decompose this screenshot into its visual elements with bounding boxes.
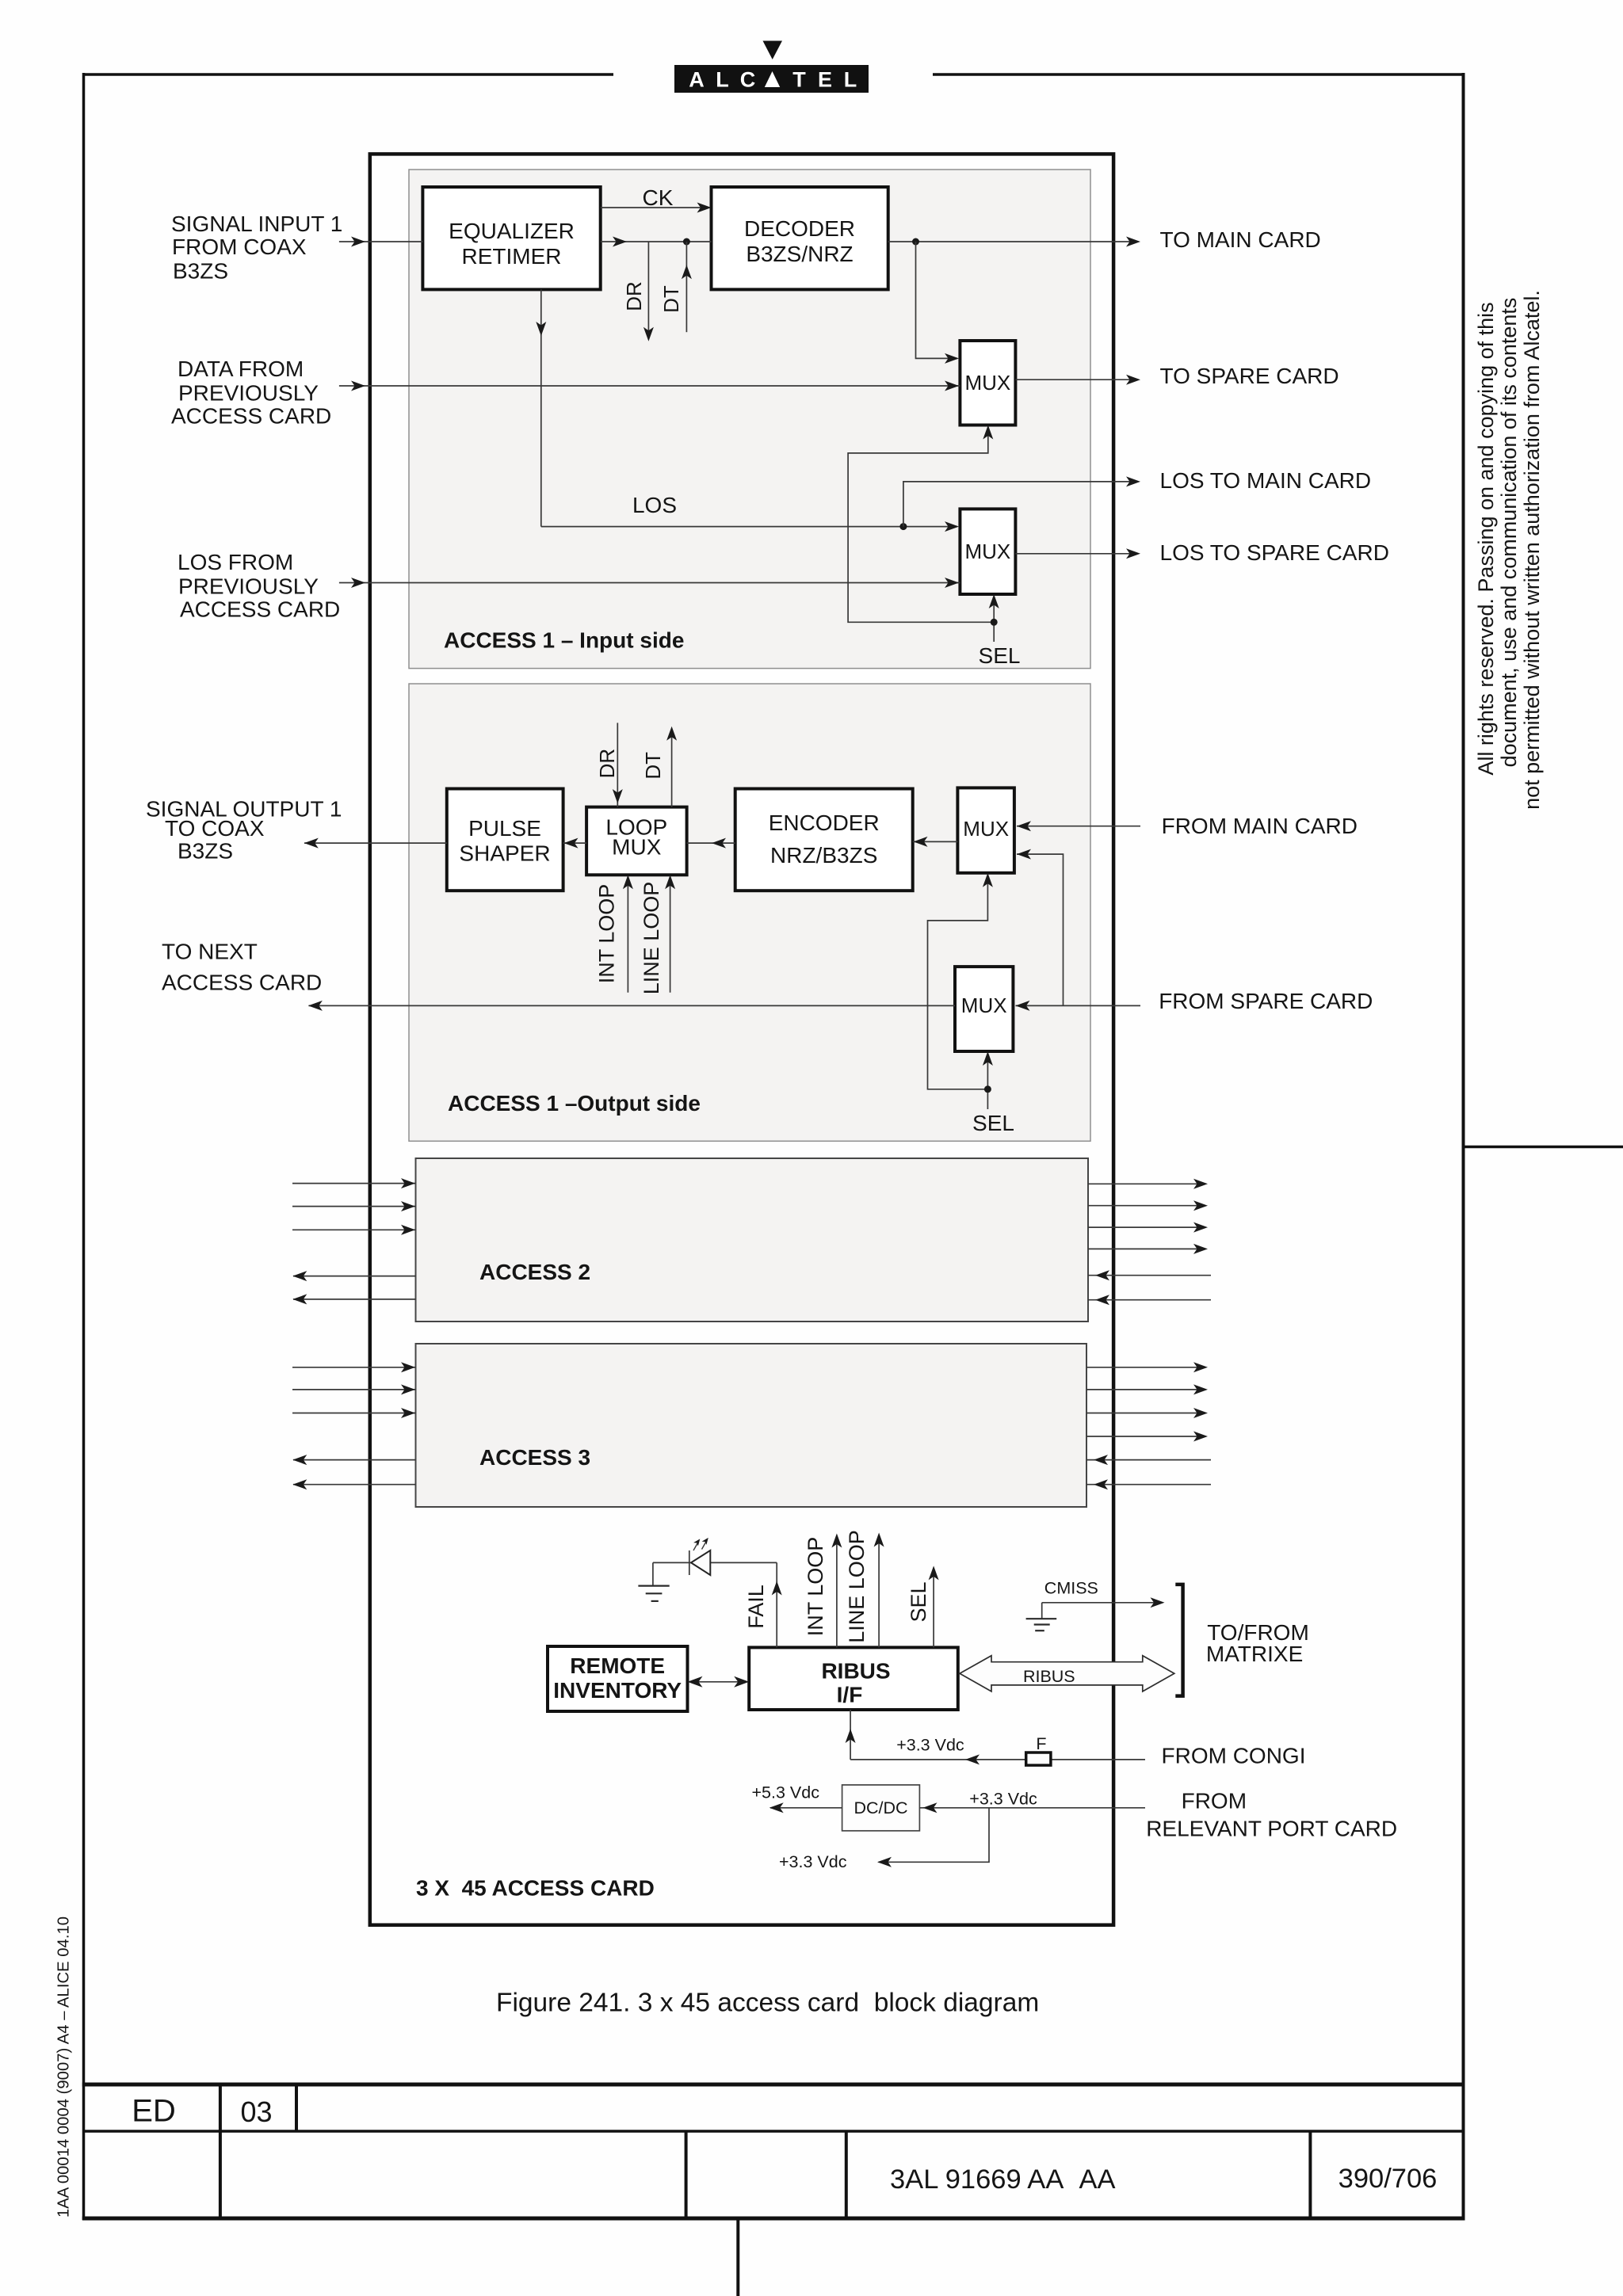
wires ACCESS 2 right outputs: [1088, 1179, 1208, 1254]
svg-text:+3.3 Vdc: +3.3 Vdc: [779, 1852, 847, 1871]
svg-text:F: F: [1036, 1734, 1046, 1753]
wire CMISS: [1042, 1579, 1165, 1608]
svg-text:DR: DR: [595, 749, 619, 779]
svg-text:LOS FROM: LOS FROM: [178, 550, 293, 574]
block RIBUS I/F: [749, 1647, 958, 1710]
label SIGNAL OUTPUT 1 TO COAX B3ZS: [146, 797, 342, 864]
node SEL output junction: [984, 1085, 991, 1093]
svg-text:B3ZS: B3ZS: [178, 839, 233, 864]
mux U3 (from main card): [957, 788, 1014, 872]
svg-text:FROM SPARE CARD: FROM SPARE CARD: [1159, 989, 1373, 1013]
svg-text:MUX: MUX: [965, 540, 1011, 563]
svg-text:B3ZS: B3ZS: [173, 259, 228, 284]
LED D1: [653, 1538, 777, 1575]
wire signal input 1: [339, 237, 423, 247]
wire SEL output side: [928, 873, 993, 1109]
main card outer box: [370, 154, 1113, 1924]
svg-text:+5.3 Vdc: +5.3 Vdc: [752, 1783, 820, 1802]
wires ACCESS 3 right outputs: [1086, 1362, 1208, 1441]
wire LINE LOOP into loop mux: [640, 875, 675, 994]
svg-text:MUX: MUX: [961, 994, 1007, 1017]
wire SEL from ribus: [907, 1566, 939, 1647]
svg-text:B3ZS/NRZ: B3ZS/NRZ: [746, 242, 853, 266]
wire LOS from equalizer: [536, 289, 959, 532]
wire LOS from previously access card: [339, 578, 960, 588]
wire signal output 1: [304, 838, 447, 849]
svg-text:ACCESS CARD: ACCESS CARD: [171, 404, 331, 429]
wire LINE LOOP from ribus: [845, 1530, 884, 1647]
block LOOP MUX: [586, 807, 687, 875]
wire loop mux to pulse shaper: [563, 838, 587, 849]
wire INT LOOP from ribus: [804, 1534, 842, 1648]
ACCESS 1 input side gray section: [409, 170, 1090, 669]
page frame right border: [1462, 73, 1465, 2220]
svg-text:document, use and communicatio: document, use and communication of its c…: [1497, 298, 1521, 768]
svg-text:RELEVANT PORT CARD: RELEVANT PORT CARD: [1146, 1817, 1397, 1841]
svg-text:RIBUS: RIBUS: [821, 1659, 890, 1684]
svg-text:+3.3 Vdc: +3.3 Vdc: [969, 1790, 1037, 1809]
wire +3.3 Vdc branch: [779, 1808, 989, 1871]
center mark below title block: [736, 2218, 739, 2296]
svg-text:CMISS: CMISS: [1044, 1579, 1098, 1598]
svg-text:TO NEXT: TO NEXT: [162, 940, 258, 964]
node SEL junction: [991, 619, 998, 626]
svg-text:ACCESS 3: ACCESS 3: [479, 1445, 590, 1470]
block ENCODER NRZ/B3ZS: [735, 789, 913, 891]
ACCESS 1 output side gray section: [409, 684, 1090, 1141]
svg-text:EQUALIZER: EQUALIZER: [449, 219, 575, 243]
wire LOS to main card: [903, 476, 1140, 526]
svg-text:I/F: I/F: [837, 1683, 863, 1707]
wire equalizer data to decoder: [601, 237, 712, 247]
svg-text:DC/DC: DC/DC: [854, 1798, 907, 1817]
wire DR: [622, 242, 654, 341]
svg-text:PULSE: PULSE: [468, 816, 541, 841]
svg-text:FROM: FROM: [1182, 1789, 1247, 1814]
svg-text:MUX: MUX: [965, 371, 1011, 395]
svg-text:ACCESS CARD: ACCESS CARD: [180, 597, 340, 622]
wire +3.3 Vdc from congi: [846, 1710, 1145, 1764]
wire mux U1 output to spare card: [1015, 375, 1140, 385]
svg-text:390/706: 390/706: [1338, 2164, 1438, 2194]
wires ACCESS 2 left outputs: [292, 1271, 415, 1304]
wire decoder output to main card: [888, 237, 1140, 247]
block DECODER B3ZS/NRZ: [712, 187, 888, 289]
svg-text:DECODER: DECODER: [744, 216, 855, 241]
label TO NEXT ACCESS CARD: [162, 940, 322, 995]
page frame left border: [82, 73, 86, 2220]
svg-text:ACCESS CARD: ACCESS CARD: [162, 971, 322, 995]
svg-text:DT: DT: [659, 285, 683, 313]
page frame top border: [84, 73, 1464, 76]
svg-text:DT: DT: [641, 752, 665, 780]
svg-text:NRZ/B3ZS: NRZ/B3ZS: [770, 843, 877, 868]
svg-text:1AA 00014 0004 (9007) A4 – ALI: 1AA 00014 0004 (9007) A4 – ALICE 04.10: [55, 1917, 73, 2218]
svg-text:E: E: [818, 68, 832, 92]
svg-text:SHAPER: SHAPER: [459, 841, 550, 866]
bracket to/from matrixe: [1175, 1585, 1182, 1696]
svg-text:SIGNAL INPUT 1: SIGNAL INPUT 1: [171, 212, 342, 236]
wire +5.3 Vdc output: [752, 1783, 842, 1814]
Alcatel logo bar: [674, 65, 869, 93]
svg-text:FAIL: FAIL: [744, 1585, 768, 1629]
svg-text:TO MAIN CARD: TO MAIN CARD: [1160, 227, 1321, 252]
fuse F: [1026, 1734, 1051, 1765]
svg-text:FROM COAX: FROM COAX: [172, 235, 307, 259]
svg-text:SEL: SEL: [979, 643, 1021, 668]
wire remote inventory to ribus bidirectional: [688, 1676, 750, 1688]
label TO/FROM MATRIXE: [1206, 1620, 1309, 1666]
svg-text:MATRIXE: MATRIXE: [1206, 1642, 1303, 1666]
svg-text:+3.3 Vdc: +3.3 Vdc: [896, 1736, 964, 1755]
wire spare branch to mux U3: [1017, 849, 1064, 1006]
wire DR into loop mux: [595, 723, 623, 807]
svg-text:LOS TO MAIN CARD: LOS TO MAIN CARD: [1160, 468, 1372, 493]
svg-text:A: A: [689, 68, 705, 92]
node decoder output junction: [912, 238, 919, 246]
ground for LED: [638, 1562, 669, 1601]
mux U4 (from spare card): [955, 967, 1013, 1051]
wire from main card: [1017, 821, 1140, 831]
svg-text:INVENTORY: INVENTORY: [553, 1678, 682, 1703]
label LOS FROM PREVIOUSLY ACCESS CARD: [178, 550, 340, 622]
label DATA FROM PREVIOUSLY ACCESS CARD: [171, 357, 331, 429]
wire from spare card: [1016, 1001, 1141, 1011]
svg-text:ACCESS 1 –Output side: ACCESS 1 –Output side: [448, 1091, 701, 1116]
svg-text:RIBUS: RIBUS: [1023, 1667, 1075, 1686]
wire DT: [659, 242, 692, 332]
svg-text:FROM CONGI: FROM CONGI: [1162, 1744, 1306, 1768]
svg-text:T: T: [792, 68, 806, 92]
svg-text:ACCESS 2: ACCESS 2: [479, 1260, 590, 1284]
wires ACCESS 3 right inputs: [1086, 1455, 1211, 1489]
ground for CMISS: [1026, 1603, 1057, 1630]
svg-text:LOS TO SPARE CARD: LOS TO SPARE CARD: [1160, 540, 1389, 565]
wire CK: [601, 185, 712, 213]
wire FAIL: [744, 1562, 782, 1647]
wire mux U3 to encoder: [913, 837, 958, 847]
svg-text:SEL: SEL: [907, 1581, 930, 1622]
svg-text:LINE LOOP: LINE LOOP: [845, 1530, 869, 1643]
svg-text:RETIMER: RETIMER: [462, 244, 562, 269]
block EQUALIZER RETIMER: [422, 187, 600, 289]
right margin copyright vertical text: [1474, 290, 1544, 810]
svg-text:SEL: SEL: [972, 1111, 1014, 1135]
block PULSE SHAPER: [447, 789, 563, 891]
svg-text:3AL 91669 AA AA: 3AL 91669 AA AA: [890, 2164, 1116, 2195]
wire mux U2 output LOS to spare card: [1015, 548, 1140, 559]
svg-text:All rights reserved. Passing o: All rights reserved. Passing on and copy…: [1474, 302, 1498, 775]
mux U2 (LOS to spare): [960, 509, 1015, 594]
svg-text:ACCESS 1 – Input side: ACCESS 1 – Input side: [444, 628, 684, 653]
wire encoder to loop mux: [687, 838, 735, 849]
svg-text:MUX: MUX: [963, 817, 1009, 841]
svg-text:ENCODER: ENCODER: [769, 810, 880, 835]
node LOS junction: [899, 523, 907, 530]
wires ACCESS 3 left inputs: [292, 1362, 416, 1418]
svg-text:Figure 241. 3 x 45 access card: Figure 241. 3 x 45 access card block dia…: [496, 1989, 1039, 2018]
svg-text:PREVIOUSLY: PREVIOUSLY: [178, 574, 319, 599]
svg-text:DR: DR: [622, 281, 646, 311]
wires ACCESS 2 right inputs: [1088, 1270, 1211, 1305]
svg-text:L: L: [844, 68, 857, 92]
wire DT from loop mux: [641, 727, 677, 807]
svg-text:TO COAX: TO COAX: [165, 816, 265, 841]
svg-text:DATA FROM: DATA FROM: [178, 357, 304, 381]
svg-text:PREVIOUSLY: PREVIOUSLY: [178, 381, 319, 406]
right margin separator line: [1464, 1146, 1623, 1149]
node DT junction: [683, 238, 690, 246]
block DC/DC: [842, 1785, 920, 1831]
svg-text:CK: CK: [643, 185, 674, 210]
wire data from previously access card: [339, 381, 960, 391]
svg-text:ED: ED: [132, 2094, 176, 2129]
label SIGNAL INPUT 1 FROM COAX B3ZS: [171, 212, 342, 284]
svg-text:C: C: [740, 68, 756, 92]
svg-text:REMOTE: REMOTE: [570, 1653, 665, 1678]
wire to next access card: [308, 1001, 955, 1011]
svg-text:not permitted without written: not permitted without written authorizat…: [1520, 290, 1544, 810]
RIBUS bus double arrow: [960, 1656, 1174, 1691]
wire +3.3 Vdc from relevant port card: [919, 1790, 1145, 1814]
Alcatel logo triangle: [763, 41, 783, 60]
wire SEL input side: [848, 425, 999, 643]
svg-text:MUX: MUX: [612, 835, 662, 860]
wire decoder output branch to mux U1: [916, 242, 960, 364]
ACCESS 2 block: [416, 1158, 1089, 1322]
svg-text:FROM MAIN CARD: FROM MAIN CARD: [1162, 814, 1358, 838]
svg-text:3 X 45 ACCESS CARD: 3 X 45 ACCESS CARD: [416, 1876, 655, 1901]
title block: [82, 2084, 1465, 2218]
mux U1 (data to spare): [960, 341, 1015, 425]
svg-text:L: L: [716, 68, 729, 92]
label FROM RELEVANT PORT CARD: [1146, 1789, 1397, 1841]
svg-text:LINE LOOP: LINE LOOP: [640, 882, 663, 995]
block REMOTE INVENTORY: [548, 1646, 688, 1711]
ACCESS 3 block: [416, 1344, 1087, 1507]
wires ACCESS 3 left outputs: [292, 1455, 415, 1489]
wire INT LOOP into loop mux: [595, 875, 633, 992]
wires ACCESS 2 left inputs: [292, 1178, 416, 1235]
svg-text:INT LOOP: INT LOOP: [595, 884, 619, 984]
svg-text:LOS: LOS: [632, 493, 677, 517]
svg-text:TO SPARE CARD: TO SPARE CARD: [1160, 364, 1339, 388]
svg-text:03: 03: [240, 2096, 272, 2128]
svg-text:INT LOOP: INT LOOP: [804, 1537, 827, 1637]
